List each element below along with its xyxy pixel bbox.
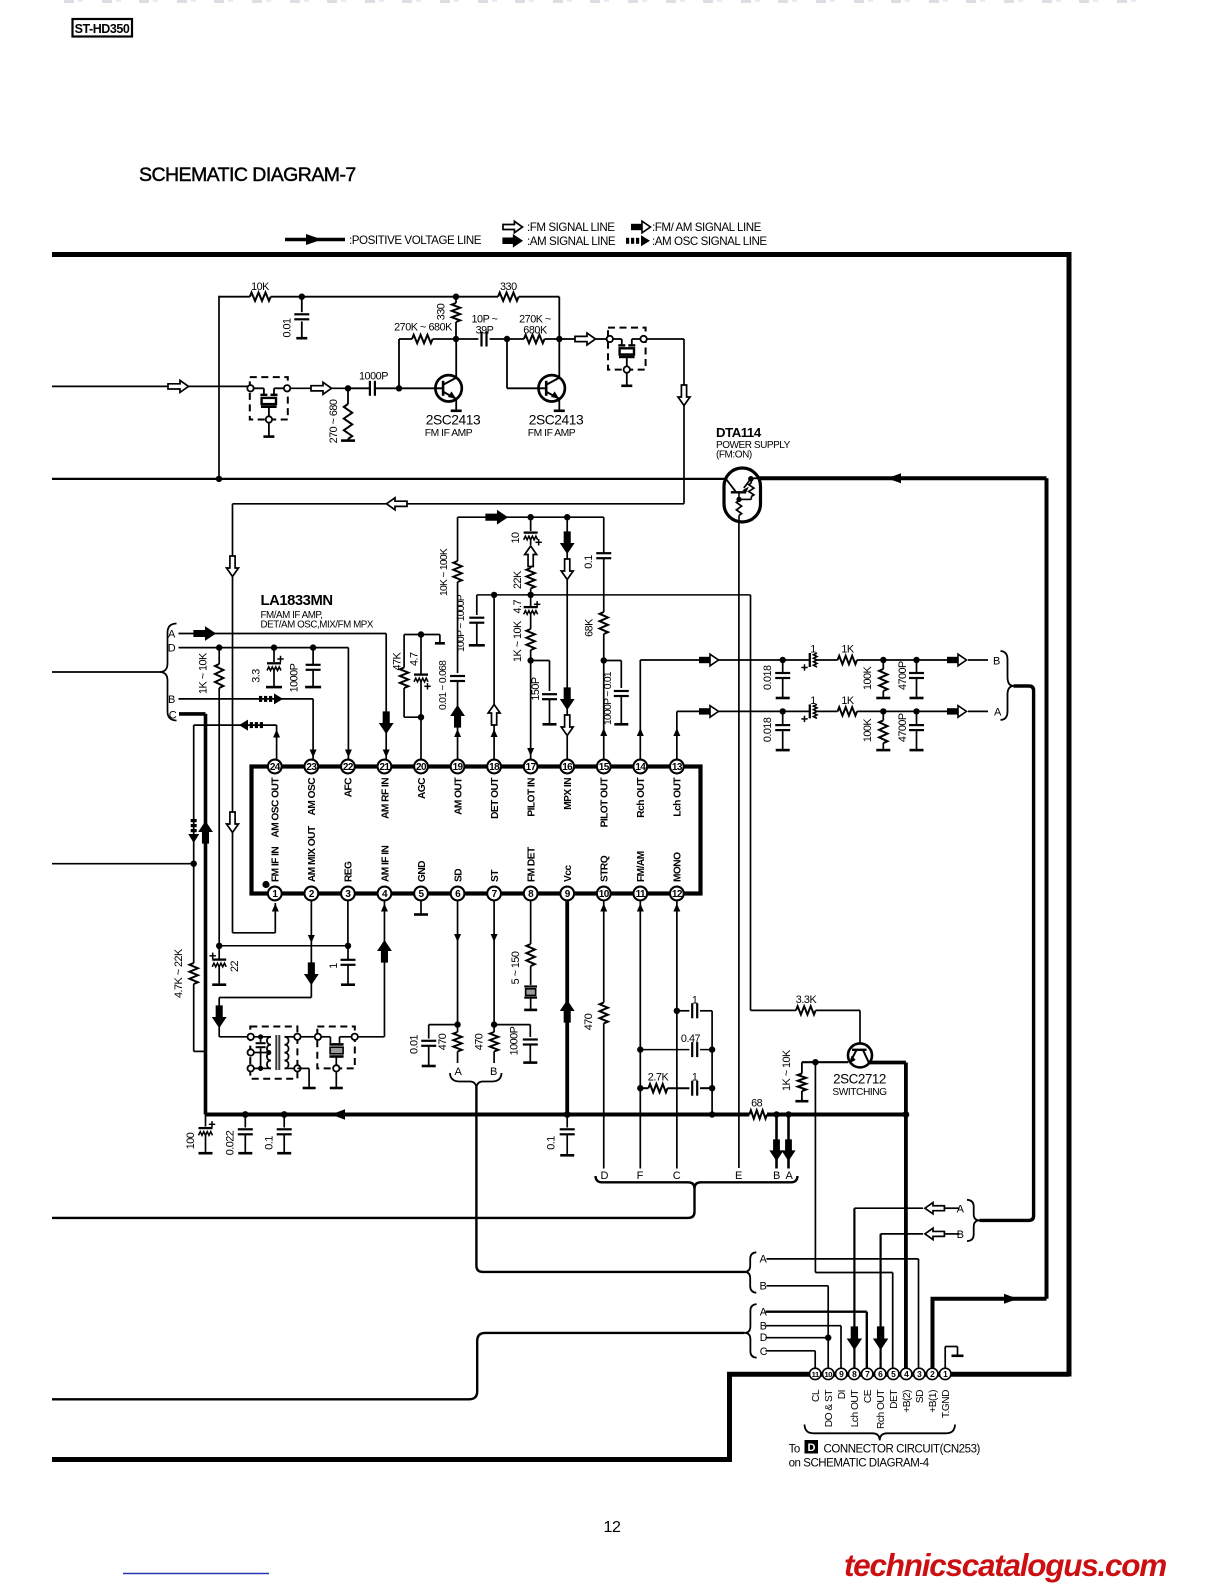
label To D CONNECTOR CIRCUIT [789,1440,981,1469]
svg-text:150P: 150P [530,677,542,701]
transistor DTA114 digital PNP [724,468,761,522]
label Q3 2SC2712 SWITCHING [832,1072,887,1098]
resistor 270K~680K first [394,322,459,344]
pin 8 FM DET [524,846,538,900]
svg-text:4.7K ~ 22K: 4.7K ~ 22K [173,948,185,998]
svg-text:10K: 10K [251,281,270,293]
ground stub filter 1 [263,423,274,437]
wire right common vertical x712 [709,1011,715,1118]
svg-text:SD: SD [915,1390,926,1403]
svg-text::FM/ AM SIGNAL LINE: :FM/ AM SIGNAL LINE [652,221,762,234]
svg-text:10: 10 [599,889,610,900]
svg-text:0.1: 0.1 [546,1136,558,1150]
resistor 4.7K~22K [173,948,206,1051]
wire DTA114 collector E line down [738,522,740,1168]
capacitor 1 on REG [328,946,356,985]
wire pin 15 PILOT OUT [600,661,607,761]
pin 19 AM OUT [451,760,465,815]
capacitor 0.1 pilot [583,517,611,612]
svg-text:AGC: AGC [417,777,428,799]
capacitor 1000P ST [494,1025,538,1063]
pin 22 AFC [341,760,355,798]
capacitor 0.018 (A row) [762,708,790,750]
svg-text:330: 330 [500,281,517,293]
svg-text:PILOT OUT: PILOT OUT [600,777,611,828]
brace input A D B C [160,624,177,721]
svg-text:100: 100 [185,1132,197,1149]
IC U1 LA1833MN body [252,767,701,894]
svg-text:12: 12 [604,1519,621,1536]
wire transformer to resonator [301,1036,315,1038]
svg-text:680K: 680K [523,325,548,337]
model label box ST-HD350 [73,19,133,37]
svg-text:Lch OUT: Lch OUT [850,1390,861,1428]
svg-text:68K: 68K [584,618,596,637]
blue underline artifact [123,1573,269,1575]
svg-text:A: A [168,628,176,640]
svg-text:DTA114: DTA114 [716,425,762,440]
wire A to pin 21 with AM arrow [179,627,393,760]
svg-text:AM OUT: AM OUT [453,777,464,815]
svg-text:4.7: 4.7 [512,599,524,613]
svg-text:11: 11 [636,889,646,900]
svg-text:1K: 1K [841,644,855,656]
brace A B to connector side [967,1200,980,1241]
capacitor 0.01~0.068 [438,660,465,710]
wire DTA114 emitter thick +B line right [751,473,1047,483]
svg-text:270 ~ 680: 270 ~ 680 [328,399,340,443]
svg-text:C: C [760,1346,768,1358]
pin 11 FM/AM [633,851,647,900]
svg-text:0.022: 0.022 [225,1130,237,1155]
svg-text:10: 10 [510,532,522,544]
svg-text:10: 10 [824,1370,832,1379]
svg-text:4700P: 4700P [897,713,909,742]
svg-text:B: B [760,1321,767,1333]
resistor 2.7K and capacitor 1 [640,1072,715,1096]
svg-text:PILOT IN: PILOT IN [526,778,537,817]
svg-text:AM OSC: AM OSC [307,777,318,816]
svg-text:CONNECTOR CIRCUIT(CN253): CONNECTOR CIRCUIT(CN253) [824,1443,981,1455]
svg-text:0.01: 0.01 [282,318,294,338]
resonator discriminator ceramic [524,987,537,1010]
brace D F C E B A gathered to left line [52,1176,695,1218]
svg-text:22K: 22K [512,570,524,589]
resistor 100K [862,711,890,750]
capacitor 100 electrolytic bus [185,1115,215,1154]
svg-text:470: 470 [437,1033,449,1050]
pin 24 AM OSC OUT [268,760,282,838]
wire pin 16 MPX IN column arrows [561,517,574,760]
svg-text:39P: 39P [476,325,494,337]
capacitor 4700P [883,657,924,698]
svg-text:A: A [957,1203,965,1215]
capacitor 100P~1000P [456,594,485,652]
wire B AM OSC line to pin 23 [179,693,317,760]
svg-text:1K ~ 10K: 1K ~ 10K [512,620,524,662]
svg-text:4.7: 4.7 [409,652,421,666]
wire pin 19 AM OUT arrows [451,703,464,760]
brace A B from SD ST [744,1252,756,1292]
capacitor 1 electrolytic coupling [783,695,838,722]
svg-text:D: D [601,1170,609,1182]
wire top positive-voltage bus [52,252,1069,257]
pin 5 GND [414,861,428,901]
svg-text:1: 1 [328,963,340,969]
capacitor 0.022 bus [225,1115,253,1156]
pin 10 STRQ [597,855,611,900]
svg-text:FM DET: FM DET [526,846,537,882]
svg-text:B: B [993,655,1000,667]
resistor 47K AGC [392,635,422,718]
ground stub resonator [330,1072,343,1088]
resistor 100K [862,660,890,698]
svg-text:ST: ST [490,869,501,882]
svg-text:DI: DI [837,1390,848,1399]
wire filter2 output loop to pin1 column [233,339,691,510]
svg-text::AM OSC SIGNAL LINE: :AM OSC SIGNAL LINE [652,235,767,248]
svg-text:1: 1 [810,644,816,656]
svg-text:STRQ: STRQ [600,855,611,882]
svg-text:24: 24 [270,762,281,773]
svg-text:10K ~ 100K: 10K ~ 100K [439,548,450,596]
wire base T1 [399,387,436,389]
svg-text:5 ~ 150: 5 ~ 150 [510,951,522,984]
svg-text:GND: GND [417,861,428,882]
svg-text:0.1: 0.1 [583,555,595,569]
svg-text:100K: 100K [862,718,874,743]
svg-text:DET/AM OSC,MIX/FM MPX: DET/AM OSC,MIX/FM MPX [261,620,374,631]
capacitor 10P~39P [456,313,510,346]
svg-text:FM IF AMP: FM IF AMP [425,428,473,439]
svg-text:1000P: 1000P [289,663,301,692]
ground T.GND symbol [945,1347,963,1369]
svg-text:270K ~: 270K ~ [519,313,551,325]
svg-text:1000P: 1000P [359,370,388,382]
wire left line to input brace [52,671,160,673]
wire pin 3 REG [347,900,349,946]
resonator AM OSC dashed box [315,1027,358,1072]
pin 12 MONO [670,852,684,901]
pin 21 AM RF IN [378,760,392,819]
svg-text:LA1833MN: LA1833MN [261,593,333,609]
wire AM OUT feed line y517 [458,511,604,524]
wire pin 10 STRQ to node D [583,900,608,1169]
ceramic filter 1 dashed box [247,377,290,423]
svg-text:22: 22 [343,762,354,773]
svg-text:2.7K: 2.7K [648,1072,670,1084]
svg-text:ST-HD350: ST-HD350 [75,22,130,36]
wire DET line from y595 down to 3.3K [751,595,797,1011]
wire A to pin 8 with arrow [854,1203,959,1214]
pin 13 Lch OUT [670,760,684,817]
legend AM OSC signal line [626,235,767,248]
svg-text:100P ~ 1000P: 100P ~ 1000P [456,594,467,652]
svg-text:Lch OUT: Lch OUT [673,777,684,817]
resistor 270K~680K second [507,313,563,343]
brace connector bottom [805,1425,956,1441]
svg-text:1K ~ 10K: 1K ~ 10K [198,652,210,694]
svg-text:on SCHEMATIC DIAGRAM-4: on SCHEMATIC DIAGRAM-4 [789,1457,930,1469]
pin 17 PILOT IN [524,760,538,817]
svg-text:100K: 100K [862,665,874,690]
svg-text:2SC2712: 2SC2712 [833,1072,886,1087]
wire FM column down to pin 1 [227,504,279,933]
ground stub AGC top [421,635,445,644]
svg-text:MPX IN: MPX IN [563,778,574,810]
wire B to pin 6 with arrow [881,1228,960,1239]
svg-text::FM SIGNAL LINE: :FM SIGNAL LINE [527,221,615,234]
label Q2 2SC2413 FM IF AMP [528,413,584,440]
svg-text:14: 14 [635,762,646,773]
brace B A outputs [1001,651,1014,720]
wire D AFC line to pin 22 [179,644,352,760]
svg-text:Rch OUT: Rch OUT [876,1390,887,1429]
resistor 1K~10K base [781,1049,848,1101]
wire right border positive-voltage line [1067,252,1072,1377]
wire pin 4 AM IF IN [358,900,391,1037]
transistor Q3 2SC2712 [848,1043,872,1067]
svg-text::POSITIVE VOLTAGE LINE: :POSITIVE VOLTAGE LINE [349,234,482,247]
capacitor 3.3 electrolytic [251,648,284,688]
resistor 68K [584,612,608,664]
svg-text:23: 23 [306,762,317,773]
pin 7 ST [487,869,501,901]
svg-text:technicscatalogus.com: technicscatalogus.com [844,1547,1166,1583]
pin 20 AGC [414,760,428,799]
svg-text:B: B [760,1281,767,1293]
wire REG node line y946 [216,943,351,949]
wire A CE to pin 7 [766,1312,867,1368]
svg-text:T.GND: T.GND [941,1390,952,1418]
resistor 330 vertical at collector T1 [436,294,461,340]
svg-text:1: 1 [692,994,698,1006]
wire Lch OUT down to pin 8 [848,1208,861,1368]
wire B DI to pin 9 [766,1326,842,1368]
svg-text:A: A [760,1254,768,1266]
svg-text:13: 13 [672,762,683,773]
svg-text:FM IF IN: FM IF IN [271,847,282,882]
svg-text:0.018: 0.018 [762,717,774,742]
wire base T2 jog [507,339,539,388]
svg-text:15: 15 [599,762,610,773]
ground stub filter 2 [621,373,632,386]
wire pin 14 Rch OUT to B channel [637,654,783,760]
svg-text:470: 470 [474,1033,486,1050]
capacitor 1000P on D line [289,648,322,693]
resistor 68 on bus [749,1097,767,1118]
svg-text:SCHEMATIC DIAGRAM-7: SCHEMATIC DIAGRAM-7 [139,164,356,186]
svg-text:DET OUT: DET OUT [490,777,501,819]
capacitor 4.7 electrolytic [512,595,540,629]
label DTA114 POWER SUPPLY FM:ON [716,425,791,461]
svg-text:To: To [789,1443,800,1455]
wire D to pin 10 junction [766,1337,829,1339]
svg-text:FM/AM: FM/AM [636,851,647,882]
resistor 1K~10K on D line [198,648,224,946]
resistor 1K [838,644,887,665]
transistor Q2 2SC2413 [539,339,565,411]
svg-text:470: 470 [583,1013,595,1030]
svg-text:D: D [168,643,176,655]
wire Rch OUT down to pin 6 [874,1234,887,1368]
svg-text:DO & ST: DO & ST [824,1390,835,1428]
wire gathered BA line down to lower brace [980,686,1034,1220]
svg-text:3.3K: 3.3K [796,994,818,1006]
pin 16 MPX IN [560,760,574,810]
wire second bus line y479 [52,476,725,482]
wire FM input line from left [52,380,251,392]
wire 10K top row [219,294,456,300]
wire node A branch from bus [783,1111,795,1168]
wire bottom thick return line [52,1374,1069,1460]
legend FM/AM signal line [631,221,762,234]
svg-text:330: 330 [436,303,448,320]
capacitor 1000P coupling [348,370,399,396]
capacitor 1000P~0.01 [603,661,629,726]
pin 9 Vcc [560,865,574,901]
svg-text:B: B [773,1170,780,1182]
svg-text:CL: CL [811,1389,822,1402]
svg-text:B: B [168,694,175,706]
wire pin 2 AM MIX OUT path [213,900,318,1037]
wire +B thick vertical right side [1045,478,1049,1299]
wire pin24 AM OSC OUT loop [188,720,280,963]
legend positive voltage line [285,234,482,247]
wire pin 17 PILOT IN [527,661,534,761]
svg-text:DET: DET [889,1390,900,1409]
svg-text:10P ~: 10P ~ [471,313,497,325]
svg-text:(FM:ON): (FM:ON) [716,450,752,461]
scan artifact gray dashes top edge [64,0,1136,3]
brace A B SD-ST gathered [450,1073,502,1089]
pin 14 Rch OUT [633,760,647,818]
wire +B thick to connector pin2 [931,1294,1047,1371]
capacitor 22 electrolytic [210,946,242,985]
svg-text:1K: 1K [841,695,855,707]
pin 15 PILOT OUT [597,760,611,828]
capacitor 0.1 bus [264,1115,292,1154]
resistor 22K [512,568,535,598]
svg-text:A: A [786,1170,794,1182]
svg-text:1K ~ 10K: 1K ~ 10K [781,1049,793,1091]
brace A B D C control lines [744,1304,756,1358]
legend FM signal line [503,221,615,234]
wire pin 9 Vcc thick [561,900,574,1118]
svg-text:16: 16 [562,762,573,773]
wire C thick line down to AM osc tank [179,714,212,1115]
wire pin 20 AGC [420,717,422,760]
resistor 470 ST [474,1025,499,1063]
capacitor 0.018 (B row) [762,657,790,698]
pin 18 DET OUT [487,760,501,819]
svg-text:REG: REG [344,861,355,882]
connector CN pins row [810,1368,951,1379]
svg-text:AM MIX OUT: AM MIX OUT [307,825,318,882]
resistor 3.3K [796,994,860,1043]
wire C CL to pin 11 [766,1351,816,1368]
svg-text:+B(1): +B(1) [928,1390,939,1413]
capacitor 0.47 [640,1033,715,1057]
resistor 10K~100K [439,517,462,673]
legend AM signal line [503,235,616,248]
wire pin 18 DET OUT [488,595,500,760]
capacitor 150P [530,661,557,725]
svg-text:0.1: 0.1 [264,1136,276,1150]
svg-text:17: 17 [526,762,537,773]
wire Q3 collector to DET pin 5 [815,1062,892,1371]
resistor 10K [250,281,271,301]
capacitor 0.01 SD [409,1025,458,1066]
svg-text:AM OSC OUT: AM OSC OUT [271,777,282,838]
pin 1 FM IF IN [268,847,282,901]
wire SD/ST gathered line to connector brace [476,1087,745,1272]
svg-text:12: 12 [672,889,683,900]
svg-text:B: B [490,1066,497,1078]
wire ground bus y1114.5 [206,1109,906,1120]
wire left line AM antenna y864 [52,863,194,865]
wire pin 11 FM/AM to node F [637,900,644,1169]
svg-text:F: F [637,1170,644,1182]
svg-text:A: A [455,1066,463,1078]
wire output arrow to brace [917,654,989,666]
ground pin 5 GND stub [414,900,428,915]
svg-text:FM IF AMP: FM IF AMP [528,428,576,439]
svg-text:0.01: 0.01 [409,1034,421,1054]
svg-text:47K: 47K [392,651,404,670]
wire FM up arrow pin17 branch [525,546,537,568]
ceramic filter 2 dashed box [607,328,647,373]
svg-text:1: 1 [692,1072,698,1084]
svg-text:1: 1 [810,695,816,707]
label Q1 2SC2413 FM IF AMP [425,413,481,440]
resistor 1K [838,695,887,716]
svg-text:3.3: 3.3 [251,669,263,683]
wire pin 12 MONO to node C [673,900,680,1169]
svg-text:MONO: MONO [673,852,684,882]
wire Q3 emitter thick to +B2 [869,1063,910,1372]
resistor 270~680 [328,388,355,443]
wire DET OUT line y595 [477,592,751,598]
wire long control line from left edge to brace [52,1333,744,1399]
svg-text:Vcc: Vcc [563,865,574,882]
label LA1833MN [261,593,374,631]
pin 23 AM OSC [304,760,318,816]
capacitor 1 electrolytic coupling [783,644,838,671]
svg-text:2SC2413: 2SC2413 [529,413,584,428]
svg-text:CE: CE [863,1389,874,1403]
wire pin 7 ST [491,900,498,1028]
svg-text:B: B [957,1229,964,1241]
transformer T1 AM OSC dashed box [248,1027,301,1079]
svg-text:E: E [735,1170,742,1182]
svg-text:Rch OUT: Rch OUT [636,777,647,818]
svg-text:19: 19 [453,762,464,773]
svg-text:21: 21 [379,762,390,773]
pin 6 SD [451,869,465,901]
svg-text:1000P ~ 0.01: 1000P ~ 0.01 [603,671,614,725]
pin 2 AM MIX OUT [304,825,318,900]
resistor 470 SD [437,1025,462,1063]
resistor 330 horizontal top [456,281,559,339]
svg-text:C: C [673,1170,681,1182]
pin 4 AM IF IN [378,845,392,900]
wire node B branch from bus [771,1111,783,1168]
svg-text:SD: SD [453,869,464,882]
capacitor 0.01 top [282,297,310,339]
svg-text:AM IF IN: AM IF IN [380,845,391,882]
wire output arrow to brace [917,706,989,718]
